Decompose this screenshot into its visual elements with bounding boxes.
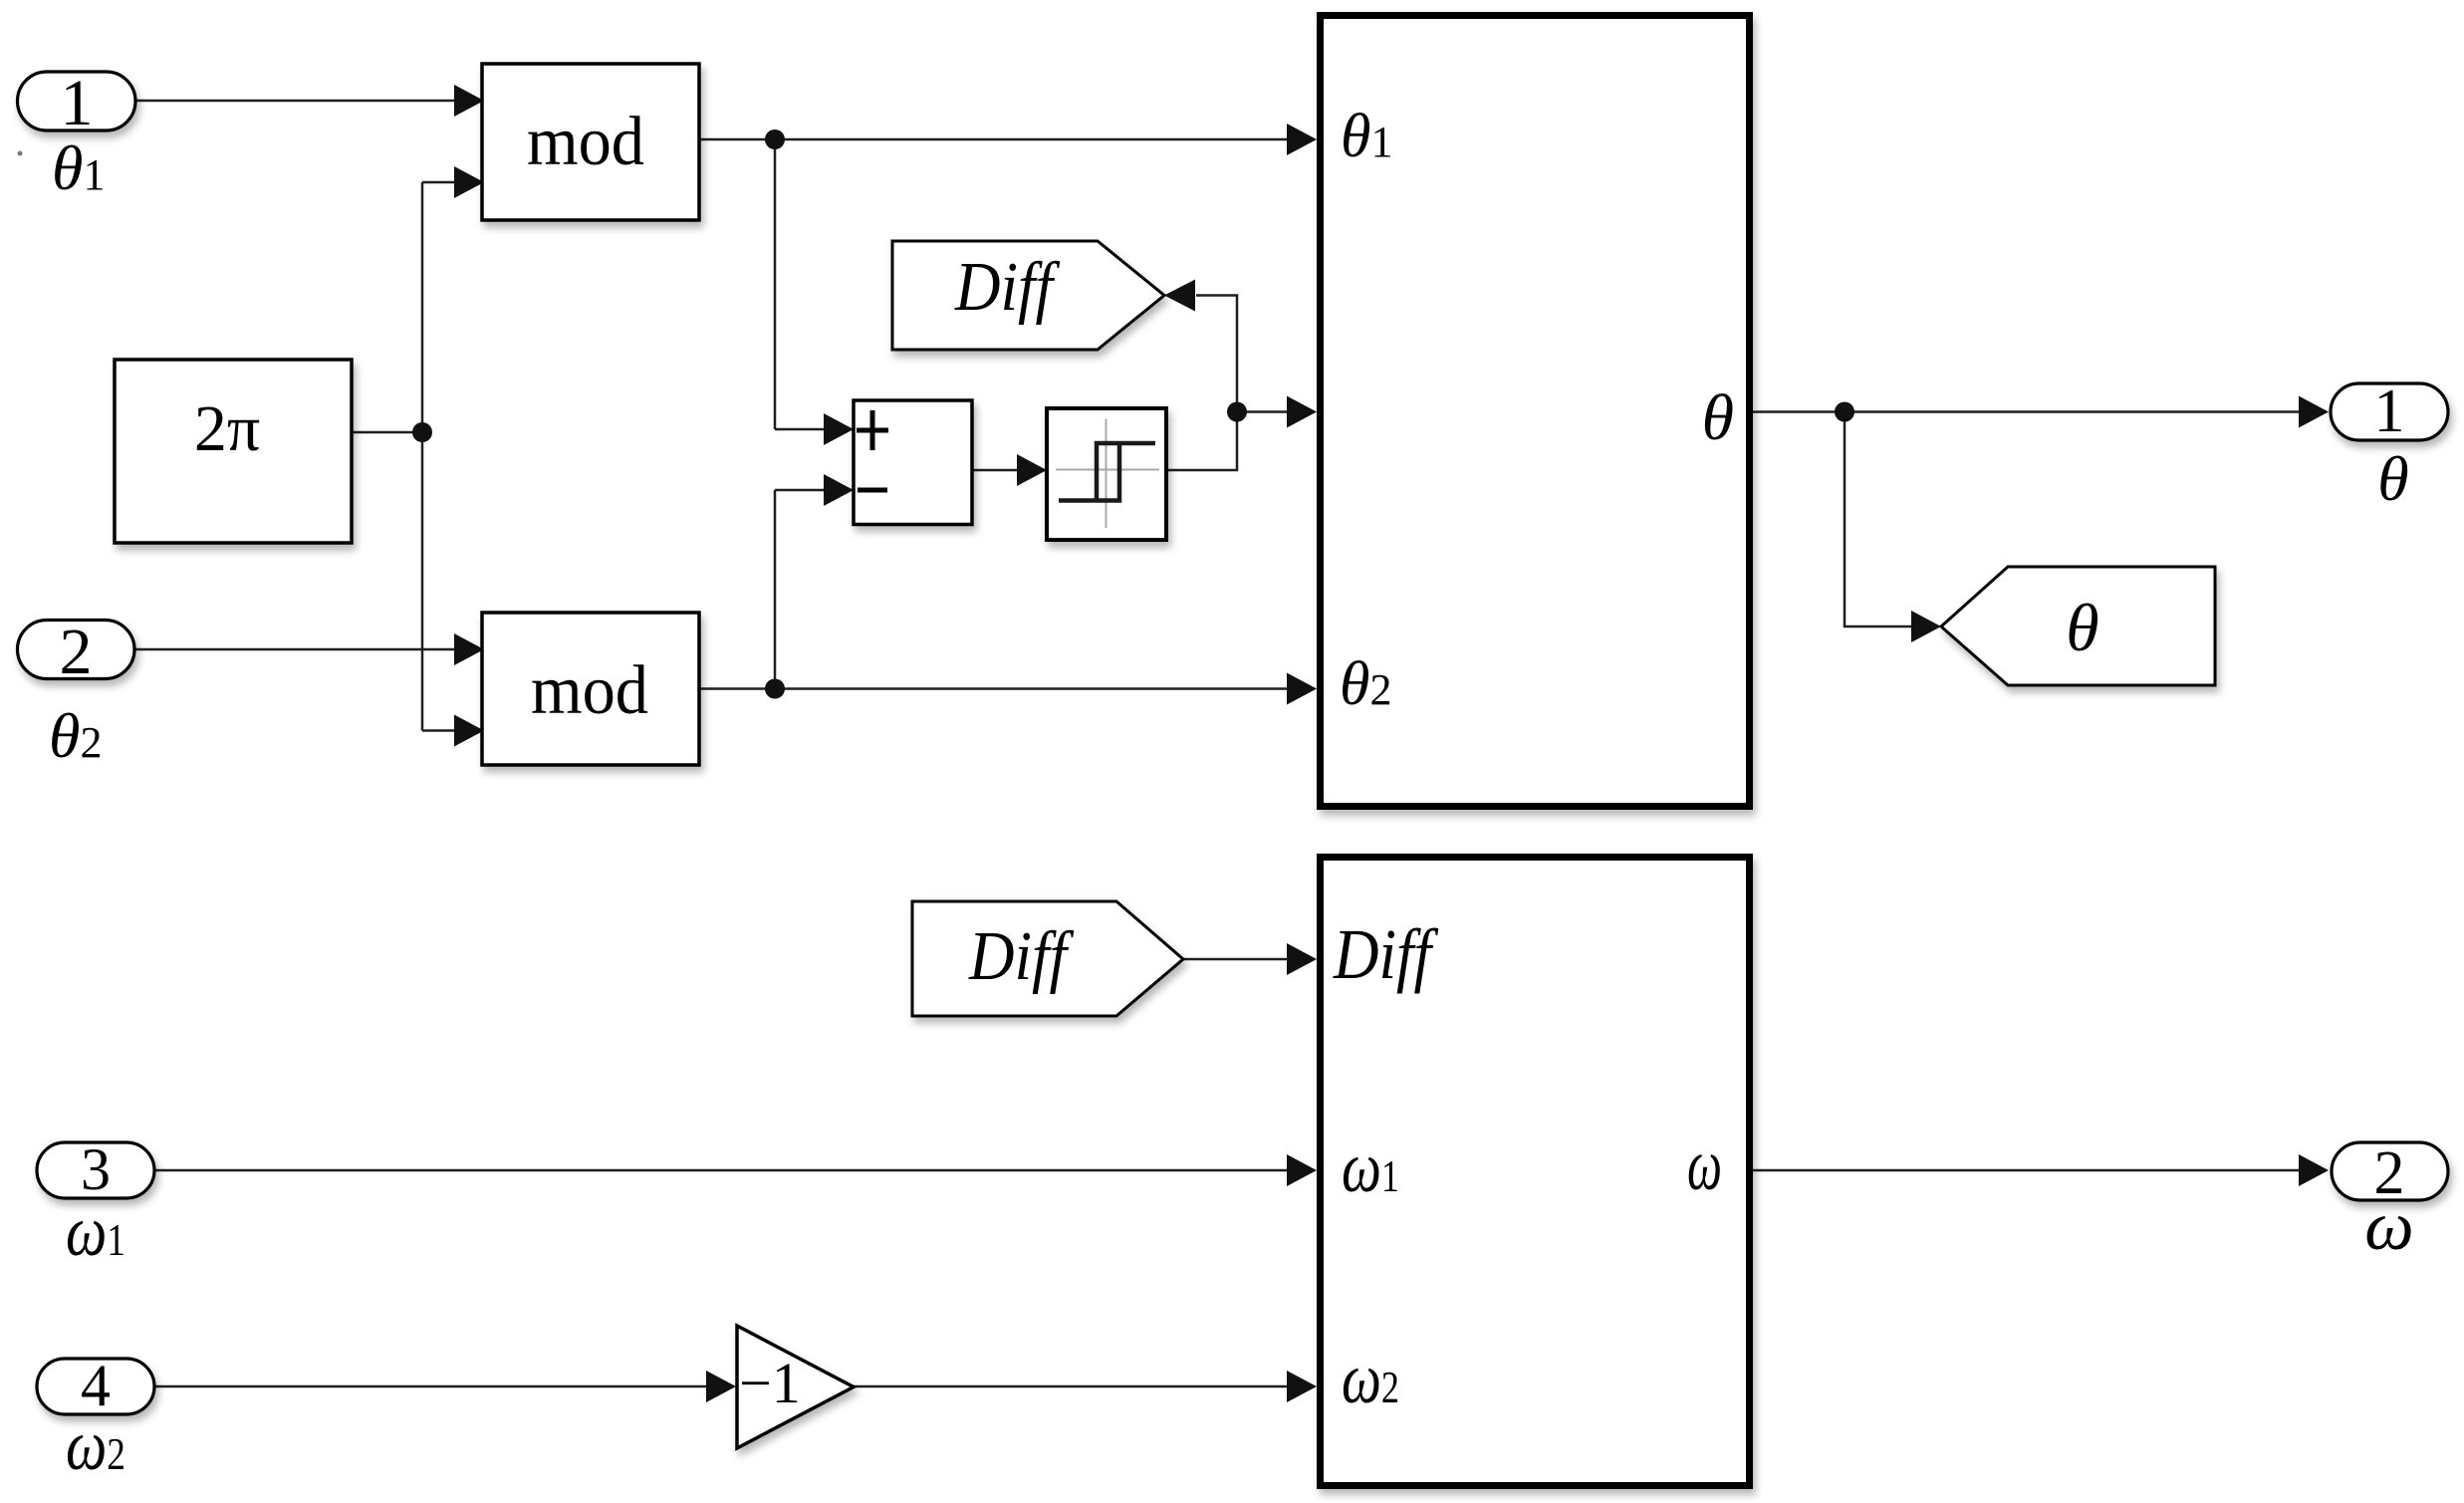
svg-text:ω: ω <box>1687 1125 1722 1206</box>
svg-text:2π: 2π <box>194 392 260 465</box>
svg-text:ω: ω <box>2364 1188 2413 1265</box>
svg-text:θ: θ <box>2377 443 2408 514</box>
svg-text:1: 1 <box>61 67 94 139</box>
svg-text:−1: −1 <box>739 1351 801 1415</box>
svg-text:2: 2 <box>60 616 93 688</box>
svg-text:mod: mod <box>527 104 644 180</box>
svg-text:Diff: Diff <box>1333 914 1439 994</box>
svg-text:1: 1 <box>2374 377 2405 445</box>
svg-text:Diff: Diff <box>968 918 1075 995</box>
svg-text:θ: θ <box>2066 590 2098 665</box>
svg-text:Diff: Diff <box>954 249 1061 326</box>
svg-text:mod: mod <box>531 652 648 729</box>
svg-text:θ: θ <box>1702 381 1734 454</box>
